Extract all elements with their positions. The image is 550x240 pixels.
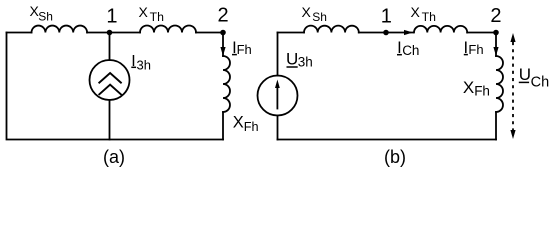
svg-text:X: X — [233, 114, 244, 132]
svg-text:X: X — [302, 4, 312, 20]
svg-text:U: U — [519, 65, 531, 84]
svg-text:Sh: Sh — [38, 9, 53, 23]
svg-text:Fh: Fh — [244, 120, 259, 134]
svg-text:Ch: Ch — [402, 43, 419, 58]
svg-text:X: X — [463, 78, 474, 97]
svg-text:I: I — [397, 39, 402, 57]
svg-text:3h: 3h — [298, 54, 313, 69]
svg-text:(a): (a) — [103, 147, 125, 167]
svg-text:U: U — [286, 50, 298, 69]
svg-text:2: 2 — [218, 5, 229, 27]
svg-text:2: 2 — [490, 5, 501, 27]
svg-text:Ch: Ch — [531, 74, 550, 90]
svg-text:Th: Th — [422, 10, 437, 24]
svg-text:3h: 3h — [137, 58, 151, 73]
svg-text:X: X — [139, 4, 149, 20]
svg-text:Fh: Fh — [468, 42, 483, 57]
svg-text:Sh: Sh — [312, 10, 327, 24]
svg-text:Th: Th — [150, 10, 165, 24]
svg-text:Fh: Fh — [237, 42, 252, 57]
svg-text:I: I — [464, 39, 469, 57]
svg-text:1: 1 — [106, 5, 117, 27]
svg-text:1: 1 — [381, 5, 392, 27]
svg-text:X: X — [411, 4, 421, 20]
svg-text:Fh: Fh — [474, 83, 490, 98]
svg-text:I: I — [131, 53, 135, 70]
svg-text:(b): (b) — [384, 147, 406, 167]
